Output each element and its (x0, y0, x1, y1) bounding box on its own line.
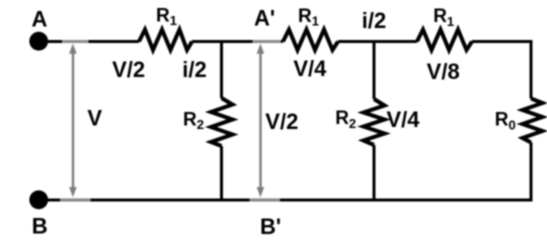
resistor R0 (523, 99, 543, 143)
terminal B (29, 190, 48, 209)
svg-text:A: A (31, 7, 47, 32)
voltage arrow V/2 (double-headed) (257, 44, 265, 198)
wire: top right, R1c to corner (472, 40, 531, 43)
svg-text:R1: R1 (156, 5, 177, 28)
svg-text:V/4: V/4 (293, 56, 327, 81)
wire: shunt branch 1 bottom lead (220, 146, 223, 200)
resistor R2 (first) (211, 98, 233, 146)
gray cap on top wire at V/2 arrow (253, 40, 282, 43)
svg-text:V/2: V/2 (112, 57, 145, 82)
svg-text:V/4: V/4 (386, 107, 420, 132)
svg-text:B': B' (260, 214, 281, 239)
gray cap on bottom wire at V/2 arrow (250, 198, 281, 201)
svg-text:A': A' (254, 6, 275, 31)
wire: shunt branch 2 bottom lead (373, 145, 376, 200)
svg-text:R2: R2 (183, 109, 204, 132)
gray cap on top wire at V arrow (62, 40, 89, 43)
resistor R1 (second) (283, 30, 338, 51)
svg-text:V/2: V/2 (265, 109, 298, 134)
terminal A (29, 32, 48, 51)
gray cap on bottom wire at V arrow (60, 198, 91, 201)
resistor R1 (first) (139, 30, 192, 51)
wire: top, R1b to R1c through node i/2 (338, 40, 417, 43)
wire: bottom, B to right corner (38, 199, 531, 202)
wire: shunt branch 2 top lead (373, 40, 376, 99)
wire: top, R1a to R1b through node A' (192, 40, 283, 43)
svg-text:i/2: i/2 (362, 8, 386, 33)
svg-text:V/8: V/8 (427, 59, 460, 84)
wire: right vertical top lead (530, 40, 533, 99)
svg-text:R2: R2 (335, 108, 356, 131)
wire: right vertical bottom lead (530, 143, 533, 202)
svg-text:R1: R1 (433, 6, 454, 29)
resistor R1 (third) (417, 30, 472, 51)
resistor R2 (second) (364, 99, 385, 145)
voltage arrow V (double-headed) (69, 44, 77, 198)
wire: shunt branch 1 top lead (220, 40, 223, 98)
svg-text:V: V (87, 105, 102, 130)
svg-text:B: B (32, 214, 48, 239)
svg-text:i/2: i/2 (182, 57, 206, 82)
svg-text:R0: R0 (495, 110, 516, 133)
svg-text:R1: R1 (298, 6, 319, 29)
wire: top, A to R1a (38, 40, 139, 43)
